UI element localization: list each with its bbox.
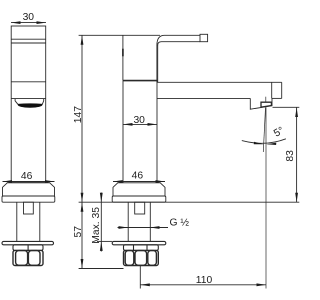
aerator axis line xyxy=(265,107,267,288)
svg-text:83: 83 xyxy=(285,150,296,162)
5 degree tilted line xyxy=(263,108,265,153)
right view washer xyxy=(112,241,166,244)
right view spout xyxy=(157,82,282,98)
right view body left edge extension xyxy=(122,35,124,80)
svg-text:30: 30 xyxy=(133,115,145,126)
left view base flange xyxy=(2,196,55,202)
left view nut collar xyxy=(13,245,43,251)
left view spout shoulder line xyxy=(11,81,46,83)
svg-text:147: 147 xyxy=(73,106,84,123)
right view handle end cap xyxy=(200,34,208,41)
left view handle ring line 2 xyxy=(11,42,46,44)
right view nut collar xyxy=(124,245,159,251)
extension line aerator outlet xyxy=(273,106,300,108)
right view shank xyxy=(128,202,150,241)
dimension Max. 35 xyxy=(91,193,103,252)
left view aerator top line xyxy=(11,98,46,100)
svg-text:30: 30 xyxy=(23,12,35,23)
right view base block xyxy=(113,183,165,196)
right view handle lever xyxy=(157,35,200,82)
bold tick on extension xyxy=(122,49,124,57)
dimension 30 (left view top) xyxy=(11,12,46,24)
right view base flange xyxy=(112,196,166,202)
extension line washer top xyxy=(97,240,112,242)
svg-text:110: 110 xyxy=(196,275,213,286)
dimension 147 xyxy=(73,35,84,202)
dimension 83 xyxy=(285,108,298,203)
extension line nut bottom xyxy=(79,268,124,270)
svg-text:46: 46 xyxy=(21,171,33,182)
left view washer xyxy=(2,241,54,244)
left view shank xyxy=(17,202,40,241)
left view base block xyxy=(3,183,55,196)
dimension 46 (right view base) xyxy=(113,171,165,183)
dimension 30 (right view) xyxy=(123,115,157,126)
angle arc 5 deg xyxy=(242,125,286,145)
left view aerator xyxy=(15,99,44,108)
deck line xyxy=(79,201,300,203)
extension line faucet axis xyxy=(139,266,141,289)
dimension G 1/2 xyxy=(118,218,190,229)
right view body xyxy=(123,80,157,182)
left view handle ring line 1 xyxy=(11,38,46,40)
left view body outline xyxy=(11,26,46,183)
svg-text:57: 57 xyxy=(73,226,84,238)
dimension 110 xyxy=(140,275,266,286)
left view hex nut xyxy=(13,250,43,265)
svg-text:G ½: G ½ xyxy=(170,218,190,229)
dimension 57 xyxy=(73,202,84,268)
extension line handle top (y35.3) xyxy=(79,34,160,36)
dimension 46 (left view base) xyxy=(3,171,55,183)
right view aerator xyxy=(250,97,272,110)
svg-text:46: 46 xyxy=(132,171,144,182)
right view hex nut xyxy=(124,250,159,265)
svg-text:Max. 35: Max. 35 xyxy=(91,207,102,244)
